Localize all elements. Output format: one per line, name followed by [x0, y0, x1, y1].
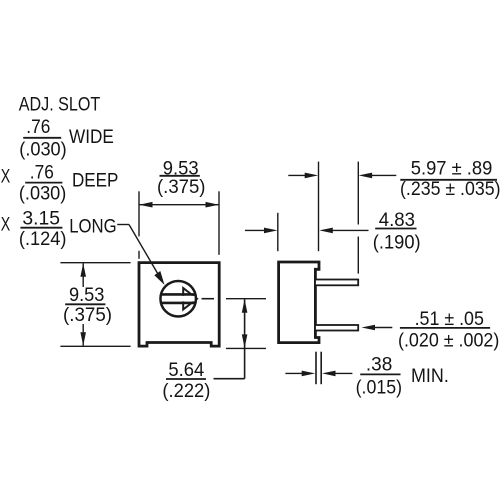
- svg-text:3.15: 3.15: [22, 208, 60, 229]
- arrowhead pointing right: [302, 371, 316, 377]
- extension line right upper segment: [357, 162, 359, 225]
- fraction bar: [23, 137, 61, 139]
- fraction bar: [400, 327, 490, 329]
- arrowhead pointing right: [305, 173, 319, 179]
- dimension line vertical: [244, 299, 246, 379]
- reference line at body bottom: [226, 347, 266, 349]
- arrowhead down: [80, 332, 86, 346]
- arrowhead up: [80, 263, 86, 277]
- dimension 5.97 ± .89 / (.235 ± .035): [288, 159, 500, 274]
- svg-text:(.124): (.124): [19, 229, 67, 250]
- fraction bar: [20, 227, 62, 229]
- reference line at slot center: [226, 298, 266, 300]
- front view body: [139, 263, 219, 347]
- dimension 9.53/(.375) left (front view height): [60, 263, 130, 347]
- dimension 9.53/(.375) top (front view width): [139, 159, 219, 259]
- svg-text:.76: .76: [26, 117, 50, 138]
- dimension X .76/(.030) DEEP: [1, 163, 119, 205]
- dimension line right: [333, 229, 369, 231]
- svg-text:(.030): (.030): [19, 183, 66, 204]
- leader arrowhead: [154, 271, 164, 285]
- extension line right lower segment: [357, 237, 359, 274]
- dimension line lower segment: [82, 324, 84, 346]
- dimension 4.83/(.190): [245, 210, 421, 254]
- svg-text:(.235 ± .035): (.235 ± .035): [400, 179, 500, 200]
- fraction bar: [400, 179, 497, 181]
- svg-text:(.015): (.015): [356, 377, 402, 398]
- dimension .38/(.015) MIN.: [285, 352, 448, 399]
- bottom pin: [315, 325, 358, 331]
- svg-text:(.222): (.222): [162, 381, 210, 402]
- leader horizontal stub: [117, 224, 129, 226]
- extension line left: [138, 191, 140, 236]
- fraction bar: [360, 373, 400, 375]
- arrowhead pointing left: [322, 371, 336, 377]
- leader to label: [214, 378, 245, 380]
- svg-text:9.53: 9.53: [69, 285, 104, 306]
- dimension line: [139, 204, 219, 206]
- arrowhead pointing left: [319, 228, 333, 234]
- top pin: [315, 280, 358, 286]
- fraction bar: [65, 303, 105, 305]
- arrowhead pointing left at pin: [362, 325, 376, 331]
- rotation arrow flag inside circle: [183, 288, 197, 310]
- svg-text:5.97 ± .89: 5.97 ± .89: [411, 159, 493, 180]
- dimension line right: [336, 372, 353, 374]
- dimension X 3.15/(.124) LONG: [1, 208, 117, 250]
- extension line left: [277, 213, 279, 251]
- screw slot bars: [161, 293, 197, 296]
- arrowhead pointing right: [264, 228, 278, 234]
- svg-text:X: X: [1, 167, 11, 188]
- svg-text:X: X: [1, 215, 11, 236]
- svg-text:DEEP: DEEP: [72, 170, 118, 191]
- dimension line upper segment: [82, 263, 84, 287]
- dimension 5.64/(.222): [162, 299, 266, 403]
- svg-text:(.375): (.375): [157, 177, 206, 198]
- svg-text:MIN.: MIN.: [411, 366, 449, 387]
- svg-text:ADJ. SLOT: ADJ. SLOT: [19, 95, 101, 116]
- extension line left: [315, 352, 317, 385]
- svg-text:5.64: 5.64: [168, 360, 204, 381]
- dimension line left: [288, 174, 306, 176]
- dimension .76/(.030) WIDE: [19, 117, 114, 160]
- fraction bar: [166, 378, 206, 380]
- extension line top: [60, 262, 130, 264]
- leader from LONG to adjustment slot: [117, 225, 164, 285]
- dimension line left: [245, 229, 265, 231]
- arrowhead up: [242, 299, 248, 313]
- extension line left: [318, 162, 320, 252]
- svg-text:WIDE: WIDE: [69, 127, 114, 148]
- extension line bottom: [60, 345, 130, 347]
- dimension .51 ± .05 / (.020 ± .002): [362, 309, 500, 351]
- side view body: [279, 262, 319, 343]
- arrowhead pointing left: [359, 173, 373, 179]
- svg-text:(.030): (.030): [19, 139, 66, 160]
- arrowhead down: [242, 334, 248, 348]
- arrowhead right: [206, 202, 220, 208]
- centerline dash right of circle: [202, 298, 215, 300]
- svg-text:(.020 ± .002): (.020 ± .002): [398, 330, 499, 351]
- dimension line right: [371, 174, 396, 176]
- svg-text:LONG: LONG: [69, 217, 116, 238]
- fraction bar: [375, 228, 416, 230]
- extension line right: [320, 352, 322, 385]
- svg-text:(.375): (.375): [63, 305, 112, 326]
- svg-text:(.190): (.190): [373, 232, 421, 253]
- adjustment screw circle: [160, 281, 196, 317]
- leader line: [375, 327, 392, 329]
- dimension line left: [285, 372, 304, 374]
- svg-text:.38: .38: [366, 354, 392, 375]
- slot white gap mask: [162, 296, 195, 302]
- fraction bar: [25, 182, 62, 184]
- fraction bar: [160, 175, 200, 177]
- leader diagonal: [129, 225, 160, 278]
- svg-text:.76: .76: [30, 163, 54, 184]
- arrowhead left: [139, 202, 153, 208]
- extension line right: [218, 191, 220, 255]
- svg-text:.51 ± .05: .51 ± .05: [415, 309, 484, 330]
